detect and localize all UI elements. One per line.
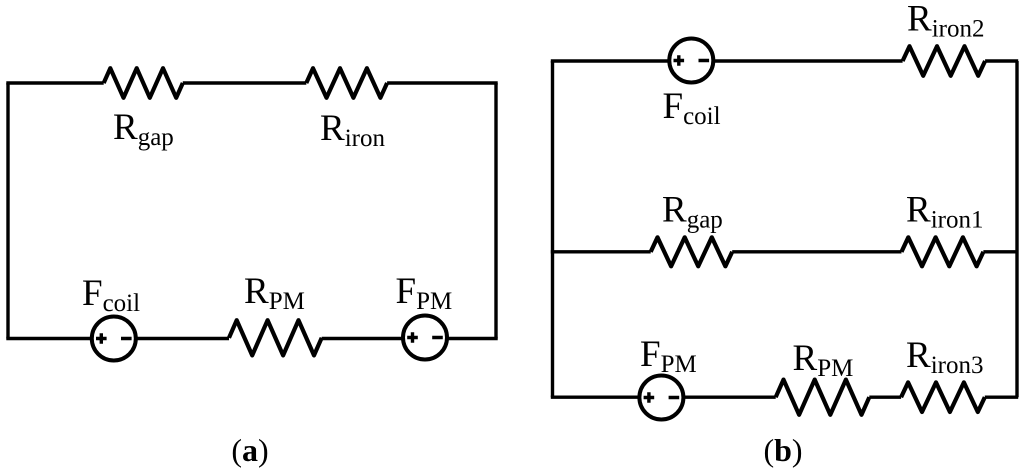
wire (b) middle branch center segment <box>732 250 901 253</box>
svg-text:FPM: FPM <box>396 271 453 315</box>
resistor R_gap (a) <box>104 68 183 98</box>
svg-text:RPM: RPM <box>244 271 305 315</box>
wire (b) right vertical <box>1015 61 1018 397</box>
svg-text:FPM: FPM <box>640 334 697 378</box>
svg-text:(b): (b) <box>763 432 802 468</box>
resistor R_iron3 (b) <box>901 382 985 412</box>
wire (a) top-right segment <box>387 81 498 84</box>
resistor R_PM (a) <box>229 320 322 355</box>
resistor R_iron1 (b) <box>902 237 984 266</box>
wire (a) top-left segment <box>6 81 103 84</box>
svg-text:Fcoil: Fcoil <box>663 86 721 130</box>
source F_PM (b) <box>639 376 683 420</box>
wire (b) bottom branch left segment <box>551 396 776 399</box>
wire (a) bottom-left segment <box>6 337 229 340</box>
svg-text:RPM: RPM <box>793 338 854 382</box>
resistor R_iron2 (b) <box>903 46 986 76</box>
wire (b) top branch left segment <box>551 59 903 62</box>
svg-text:(a): (a) <box>231 432 268 468</box>
wire (b) bottom branch right segment <box>985 396 1018 399</box>
svg-text:Rgap: Rgap <box>662 190 723 234</box>
wire (b) middle branch left segment <box>551 250 651 253</box>
svg-text:Fcoil: Fcoil <box>82 273 140 317</box>
svg-text:Riron: Riron <box>320 108 385 152</box>
svg-text:Riron2: Riron2 <box>907 0 984 43</box>
wire (a) bottom-right segment <box>322 337 498 340</box>
svg-text:Riron3: Riron3 <box>906 335 983 379</box>
svg-text:Riron1: Riron1 <box>906 190 983 234</box>
wire (a) left vertical <box>6 83 9 339</box>
source F_coil (a) <box>92 317 136 361</box>
source F_coil (b) <box>669 39 713 83</box>
resistor R_iron (a) <box>306 68 387 98</box>
wire (a) right vertical <box>494 83 497 339</box>
wire (b) left vertical <box>551 61 554 397</box>
wire (a) top-middle segment <box>183 81 306 84</box>
svg-text:Rgap: Rgap <box>113 107 174 151</box>
resistor R_gap (b) <box>651 237 733 266</box>
wire (b) top branch right segment <box>985 59 1018 62</box>
wire (b) middle branch right segment <box>983 250 1018 253</box>
wire (b) bottom branch middle segment <box>869 396 901 399</box>
source F_PM (a) <box>403 316 447 360</box>
resistor R_PM (b) <box>776 380 870 415</box>
